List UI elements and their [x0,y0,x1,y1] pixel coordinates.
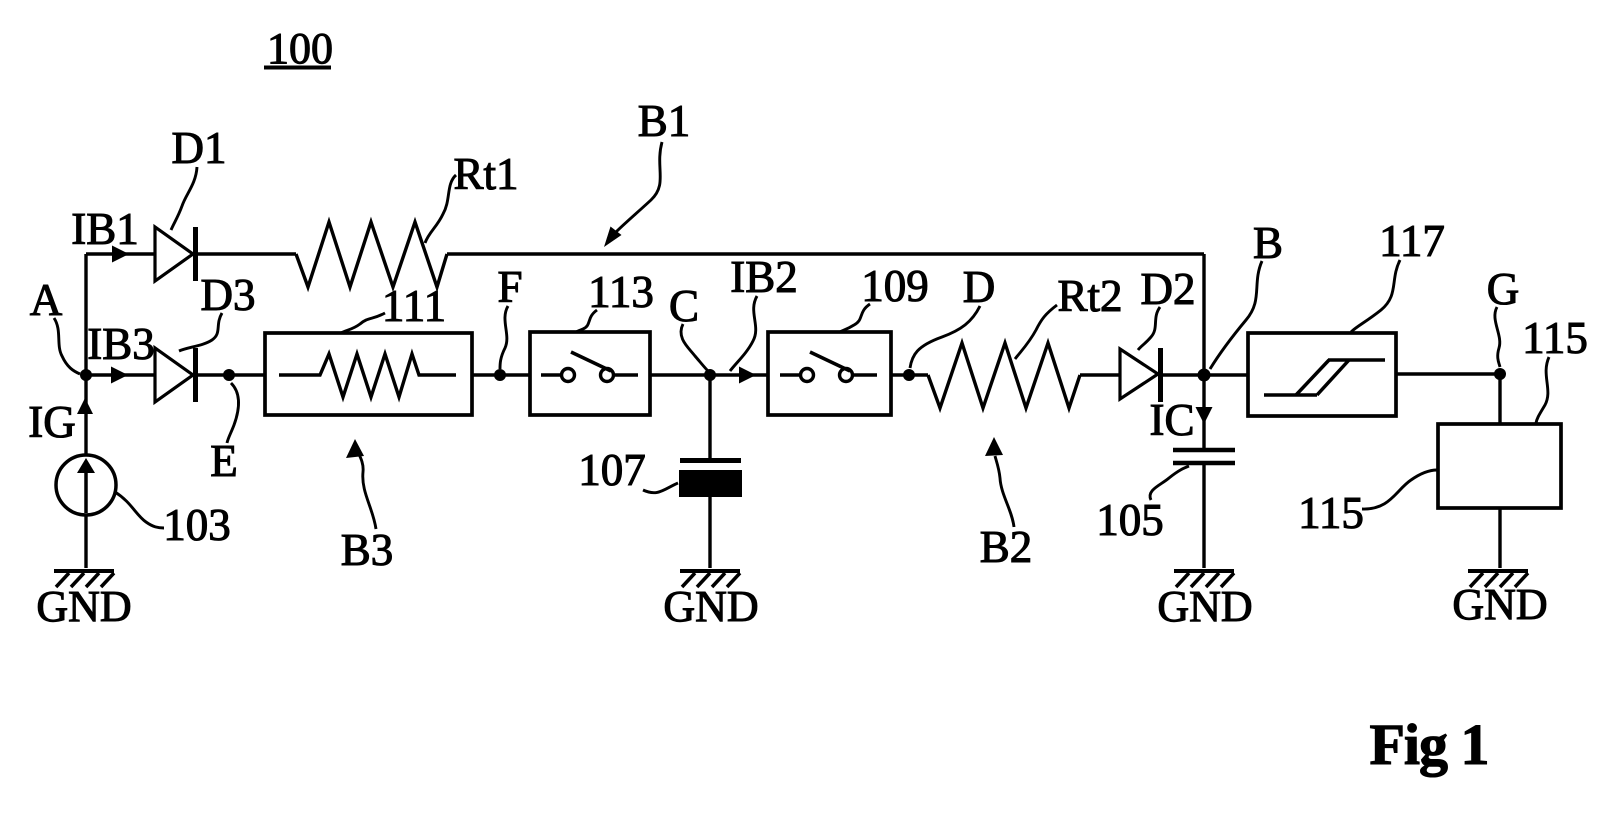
svg-text:Rt2: Rt2 [1057,271,1122,321]
leader D3 [179,313,222,351]
wire Rt2 to diode D2 [1080,373,1121,376]
label 100 (figure reference, underlined) [264,24,333,73]
svg-text:D: D [963,262,996,312]
svg-text:G: G [1487,264,1520,314]
wire node C down to capacitor 107 [708,375,711,458]
svg-text:E: E [210,436,238,486]
saturation box 117 [1248,333,1396,416]
resistor Rt2 [928,343,1080,408]
svg-text:GND: GND [1157,582,1252,631]
leader 103 [115,492,164,528]
leader IB2 [730,296,757,371]
leader F [500,306,508,369]
wire D1 to Rt1 [198,252,296,255]
node C [704,369,716,381]
node E [223,369,235,381]
wire box111 to box113 [472,373,530,376]
svg-text:111: 111 [382,281,446,331]
svg-text:GND: GND [36,582,131,631]
svg-text:IB1: IB1 [71,204,139,254]
svg-text:B3: B3 [341,525,394,575]
svg-text:F: F [497,262,522,312]
current source 103 [56,455,116,515]
arrow IG pointing up [77,398,93,414]
leader D2 [1138,307,1160,350]
limiter symbol inside 117 [1264,360,1385,395]
svg-text:GND: GND [1452,580,1547,629]
wire capacitor 105 to ground [1202,465,1205,568]
ground under 105 [1157,571,1252,631]
svg-text:B: B [1253,218,1283,268]
svg-text:Rt1: Rt1 [453,149,518,199]
leader G [1495,307,1500,367]
svg-text:105: 105 [1096,495,1164,545]
resistor box 111 [265,333,472,415]
svg-text:IB2: IB2 [730,252,798,302]
svg-text:D1: D1 [172,123,227,173]
svg-text:107: 107 [578,445,646,495]
ground under 103 [36,571,131,631]
wire box113 to box109 [650,373,768,376]
diode D2 [1120,348,1161,402]
leader 105 [1150,466,1189,500]
ground under 107 [663,571,758,631]
svg-text:Fig 1: Fig 1 [1369,712,1488,777]
svg-text:109: 109 [861,261,929,311]
resistor Rt1 [296,222,447,287]
leader D1 [171,167,197,230]
svg-text:IG: IG [28,397,75,447]
node B [1198,369,1211,382]
ground under 115 [1452,571,1547,629]
capacitor 105 [1173,450,1235,463]
leader 115 left [1362,470,1437,509]
wire box117 to node G [1396,372,1500,375]
leader B1 with arrowhead [604,142,662,247]
arrow IB2 on wire [739,367,756,384]
svg-text:A: A [30,275,63,325]
capacitor 107 (top plate line, bottom filled plate) [679,461,742,498]
svg-text:115: 115 [1298,488,1364,538]
diode D1 [155,227,196,281]
svg-text:GND: GND [663,582,758,631]
switch box 109 [768,332,891,415]
wire corner down to node B [1202,254,1205,372]
block box 115 [1438,424,1561,508]
wire vertical A to upper branch [84,254,87,375]
leader 109 [840,304,870,332]
svg-text:C: C [669,281,699,331]
leader Rt2 [1015,305,1057,359]
switch 113 contacts and arm [541,352,638,382]
leader Rt1 [425,175,456,243]
leader D [910,306,980,368]
leader 111 [341,313,385,333]
wire A to diode D3 [86,373,156,376]
leader B2 with up arrow [985,437,1014,527]
leader B [1210,261,1262,369]
leader 115 top [1536,357,1549,423]
wire upper branch from corner to diode D1 [86,252,156,255]
svg-text:117: 117 [1379,216,1445,266]
switch box 113 [530,332,650,415]
leader 107 [643,483,678,493]
arrow IC pointing down [1196,407,1213,424]
wire box109 to Rt2 [891,373,928,376]
leader 113 [576,310,597,332]
svg-text:B2: B2 [980,522,1033,572]
svg-text:113: 113 [588,267,654,317]
node D [903,369,915,381]
svg-text:B1: B1 [638,96,691,146]
node A [80,369,92,381]
leader A [54,318,80,374]
leader C [681,324,708,371]
svg-text:115: 115 [1522,313,1588,363]
diode D3 [155,348,196,402]
wire node A down to current source [84,375,87,455]
wire capacitor 107 to ground [708,497,711,568]
resistor 111 element inside box [279,354,456,397]
wire node B down to capacitor 105 [1202,375,1205,448]
leader 117 [1351,260,1400,332]
svg-text:D2: D2 [1141,264,1196,314]
leader E [227,383,239,443]
svg-text:IC: IC [1150,395,1195,445]
node F [494,369,506,381]
svg-text:D3: D3 [201,270,256,320]
wire D3 to node E and box 111 [198,373,265,376]
wire current source to ground [84,515,87,568]
arrow IB1 on upper wire [112,246,129,263]
node G [1494,368,1506,380]
switch 109 contacts and arm [780,352,877,382]
wire node G down to box 115 [1498,374,1501,424]
wire D2 to box 117 through node B [1163,373,1248,376]
wire B1 long top run [447,252,1204,255]
svg-text:IB3: IB3 [87,319,155,369]
wire box 115 to ground [1498,508,1501,568]
leader B3 with up arrow at box 111 [346,439,376,529]
svg-text:103: 103 [163,500,231,550]
arrow IB3 on main wire [111,367,128,384]
